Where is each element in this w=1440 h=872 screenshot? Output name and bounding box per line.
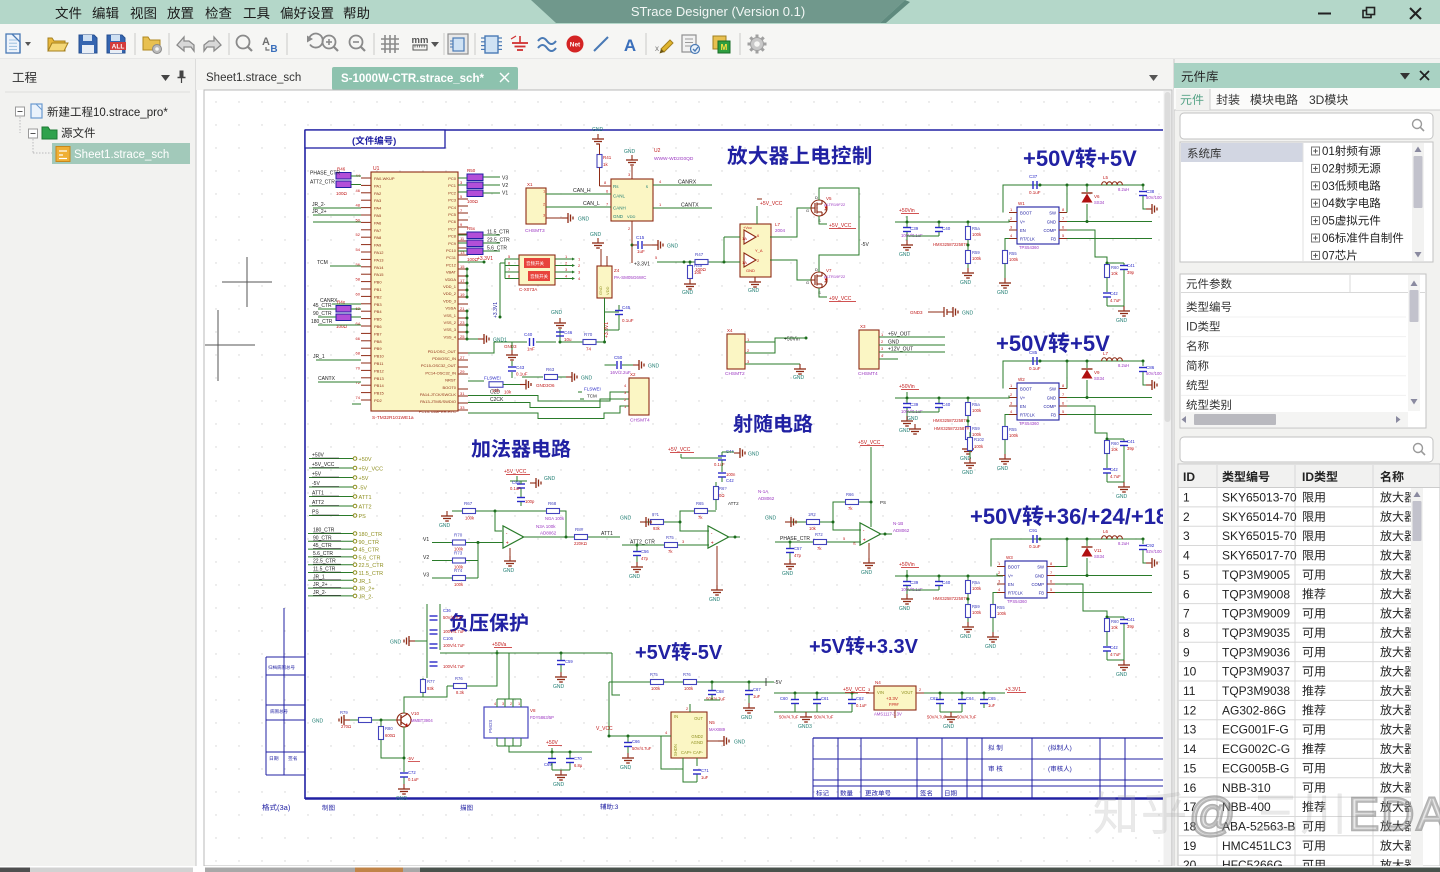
bottom strip bbox=[0, 866, 1440, 872]
wire buck top rail bk2 bbox=[1003, 360, 1145, 389]
label -5V out bbox=[766, 678, 782, 686]
svg-text:R41: R41 bbox=[603, 155, 612, 160]
svg-text:ALTR19F22: ALTR19F22 bbox=[824, 202, 846, 207]
op-amp N5 MAX889 inverter bbox=[663, 682, 726, 758]
svg-text:PC12: PC12 bbox=[446, 262, 457, 267]
svg-text:PB11: PB11 bbox=[374, 361, 384, 366]
power +5V_VCC inv bbox=[596, 726, 663, 738]
diode V6 SS34 bbox=[1082, 185, 1105, 222]
svg-text:GND: GND bbox=[629, 574, 641, 580]
op-amp N3A summing bbox=[503, 524, 557, 548]
resistor R65 bbox=[680, 501, 716, 531]
svg-text:C41: C41 bbox=[1127, 263, 1135, 268]
svg-text:V1: V1 bbox=[423, 537, 429, 543]
svg-text:100k: 100k bbox=[454, 582, 464, 587]
frame margin blocks bbox=[262, 608, 619, 812]
svg-text:GND: GND bbox=[312, 719, 324, 725]
svg-text:GND: GND bbox=[590, 232, 602, 238]
resistor R91 bbox=[640, 512, 682, 531]
svg-text:180_CTR: 180_CTR bbox=[313, 528, 335, 534]
svg-text:39p: 39p bbox=[1127, 446, 1135, 451]
canvas frame bbox=[204, 90, 1172, 866]
svg-text:PHASE_CTR: PHASE_CTR bbox=[310, 171, 340, 177]
wire comp bk3 bbox=[1055, 584, 1107, 617]
svg-text:+Vcc: +Vcc bbox=[743, 225, 752, 230]
wire V10 emitter bbox=[403, 727, 421, 772]
svg-text:GND: GND bbox=[592, 127, 604, 133]
svg-text:C40: C40 bbox=[524, 332, 533, 337]
svg-text:BOOT: BOOT bbox=[1020, 211, 1032, 216]
svg-text:VSS_1: VSS_1 bbox=[444, 313, 457, 318]
svg-text:L5: L5 bbox=[1103, 175, 1109, 180]
wire fB out bbox=[871, 518, 892, 536]
svg-text:66: 66 bbox=[356, 336, 361, 341]
svg-text:GND: GND bbox=[648, 364, 660, 370]
svg-text:A: A bbox=[624, 36, 636, 55]
tree guides bbox=[20, 117, 52, 153]
svg-text:V+: V+ bbox=[1008, 574, 1014, 579]
svg-text:S-1000W-CTR.strace_sch*: S-1000W-CTR.strace_sch* bbox=[341, 73, 484, 85]
svg-text:V10: V10 bbox=[411, 711, 420, 716]
svg-text:VBAT: VBAT bbox=[446, 270, 457, 275]
svg-text:100k: 100k bbox=[972, 408, 982, 413]
svg-text:+50Va: +50Va bbox=[492, 642, 506, 648]
svg-text:PA13-JTMS/SWDIO: PA13-JTMS/SWDIO bbox=[420, 399, 456, 404]
resistor Rclk bk3 bbox=[991, 593, 1007, 633]
svg-text:C2D: C2D bbox=[490, 390, 500, 396]
svg-text:100k: 100k bbox=[974, 444, 984, 449]
svg-text:VDD_2: VDD_2 bbox=[443, 291, 457, 296]
ground GND3O6 bbox=[520, 380, 555, 390]
svg-text:PA12: PA12 bbox=[374, 250, 384, 255]
svg-text:@: @ bbox=[1189, 788, 1238, 840]
svg-text:GND: GND bbox=[943, 724, 955, 730]
wire opto-left bus bbox=[499, 259, 506, 319]
svg-text:ATT2: ATT2 bbox=[312, 500, 324, 506]
svg-text:GND: GND bbox=[748, 288, 760, 294]
svg-text:1R2: 1R2 bbox=[808, 512, 816, 517]
svg-text:22.5_CTR: 22.5_CTR bbox=[487, 238, 510, 244]
svg-text:TQP3M9038: TQP3M9038 bbox=[1222, 684, 1290, 698]
svg-text:NGA 100k: NGA 100k bbox=[545, 516, 565, 521]
svg-text:SKY65014-70: SKY65014-70 bbox=[1222, 510, 1297, 524]
component table bbox=[1178, 464, 1440, 872]
svg-text:R59: R59 bbox=[972, 250, 980, 255]
right panel bbox=[1174, 59, 1440, 866]
svg-text:PC0: PC0 bbox=[448, 176, 457, 181]
resistor Rdiv2 bk1 bbox=[966, 250, 982, 268]
svg-text:45_CTR: 45_CTR bbox=[359, 548, 380, 554]
svg-text:JR_2-: JR_2- bbox=[312, 202, 326, 208]
svg-text:39p: 39p bbox=[1127, 624, 1135, 629]
svg-text:TQP3M9035: TQP3M9035 bbox=[1222, 626, 1290, 640]
svg-text:-5V: -5V bbox=[691, 642, 723, 664]
label PHASE_CTR bbox=[310, 171, 340, 177]
svg-text:50V/4.7uF: 50V/4.7uF bbox=[779, 715, 799, 720]
wire fb node bk3 bbox=[1106, 616, 1125, 619]
svg-text:5.6_CTR: 5.6_CTR bbox=[313, 551, 333, 557]
svg-text:100k: 100k bbox=[972, 256, 982, 261]
wire osc run bbox=[468, 341, 605, 354]
svg-text:100Ω: 100Ω bbox=[467, 199, 479, 204]
svg-text:0.1uF: 0.1uF bbox=[714, 462, 725, 467]
svg-text:+50V: +50V bbox=[996, 331, 1048, 356]
svg-text:HMX3258722587#: HMX3258722587# bbox=[933, 418, 969, 423]
svg-text:C85: C85 bbox=[1029, 350, 1038, 355]
svg-text:100V/4.7uF: 100V/4.7uF bbox=[443, 664, 465, 669]
svg-text:C39: C39 bbox=[910, 226, 919, 231]
svg-text:+36/+24/+18: +36/+24/+18 bbox=[1044, 504, 1168, 529]
ground C46 bbox=[551, 310, 566, 328]
wire pmos bottom bbox=[497, 746, 540, 752]
wire gnd net bk2 bbox=[1067, 396, 1152, 399]
canvas v-scrollbar bbox=[1164, 91, 1172, 865]
svg-text:R70: R70 bbox=[584, 332, 593, 337]
capacitor C56 bbox=[633, 545, 649, 562]
wire FB long bk2 bbox=[1067, 414, 1152, 416]
svg-text:F###: F### bbox=[889, 702, 899, 707]
capacitor Cin1 bk2 bbox=[901, 398, 923, 416]
svg-text:+5V_OUT: +5V_OUT bbox=[888, 332, 910, 338]
svg-text:PB4: PB4 bbox=[374, 309, 382, 314]
svg-text:): ) bbox=[1070, 766, 1072, 773]
svg-text:50V/100: 50V/100 bbox=[1146, 195, 1162, 200]
svg-text:GND: GND bbox=[899, 606, 911, 612]
svg-text:C56: C56 bbox=[641, 549, 649, 554]
svg-text:CHSMT3: CHSMT3 bbox=[525, 228, 545, 234]
svg-text:V11: V11 bbox=[1094, 548, 1102, 553]
wire fb node bk2 bbox=[1106, 438, 1125, 441]
svg-text:OUT: OUT bbox=[694, 716, 703, 721]
svg-text:U2: U2 bbox=[654, 148, 661, 154]
capacitor C85 bbox=[1029, 350, 1041, 371]
capacitor C70 bbox=[566, 752, 583, 770]
ground C72 bbox=[396, 784, 410, 802]
svg-text:PS: PS bbox=[359, 514, 367, 520]
resistor R60 bk1 bbox=[1105, 265, 1120, 293]
title 加法器电路 bbox=[471, 439, 570, 458]
svg-text:+50Vin: +50Vin bbox=[899, 208, 915, 214]
svg-text:9: 9 bbox=[1183, 645, 1190, 659]
menu bar bbox=[55, 7, 369, 20]
svg-text:PD1/OSC_OUT: PD1/OSC_OUT bbox=[428, 349, 457, 354]
svg-text:GND: GND bbox=[793, 375, 805, 381]
svg-text:5: 5 bbox=[1183, 568, 1190, 582]
power +50V pmos bbox=[546, 740, 562, 752]
resistor R75b bbox=[650, 672, 664, 691]
svg-text:V5: V5 bbox=[826, 196, 832, 201]
svg-text:W1: W1 bbox=[1018, 201, 1025, 206]
op-amp U7 gate driver bbox=[740, 222, 786, 277]
svg-text:GND: GND bbox=[613, 214, 624, 219]
power +5V_VCC fA bbox=[668, 447, 722, 458]
svg-text:46: 46 bbox=[356, 188, 361, 193]
svg-text:8: 8 bbox=[1183, 626, 1190, 640]
svg-text:R60: R60 bbox=[1111, 619, 1119, 624]
capacitor C46 bbox=[556, 329, 573, 342]
svg-text:AMS1117-3.3V: AMS1117-3.3V bbox=[874, 712, 902, 717]
svg-text:COMP: COMP bbox=[1043, 404, 1056, 409]
svg-text:68: 68 bbox=[356, 351, 361, 356]
centering cross 1 bbox=[222, 257, 272, 307]
svg-text:PC14-OSC32_IN: PC14-OSC32_IN bbox=[425, 370, 456, 375]
power +50Vin bk3 bbox=[899, 562, 919, 576]
svg-text:V6: V6 bbox=[1094, 194, 1100, 199]
svg-text:C92: C92 bbox=[1146, 543, 1155, 548]
svg-text:180_CTR: 180_CTR bbox=[311, 319, 333, 325]
capacitor C69 bbox=[544, 752, 556, 770]
resistor Rclk bk1 bbox=[1003, 239, 1019, 279]
resistor pack R4x 100R (ctr) bbox=[311, 300, 361, 330]
right panel header bbox=[1174, 63, 1440, 88]
capacitor C91 bbox=[1029, 528, 1041, 549]
label net bk1 bbox=[0, 0, 1, 1]
svg-text:V9: V9 bbox=[1094, 370, 1100, 375]
sheet frame bbox=[305, 130, 1163, 799]
capacitor C60 bbox=[779, 693, 799, 720]
power +50Va bbox=[492, 642, 512, 655]
op-amp N1B follower bbox=[860, 500, 886, 545]
svg-text:1k: 1k bbox=[603, 162, 609, 167]
svg-text:C49: C49 bbox=[512, 480, 520, 485]
capacitor C92 out bbox=[1139, 539, 1162, 557]
ground GND3 flag bbox=[504, 342, 518, 360]
title +50V转+36/+24/+1 bbox=[970, 504, 1168, 529]
svg-text:V2: V2 bbox=[423, 555, 429, 561]
svg-text:GND3: GND3 bbox=[910, 310, 923, 315]
svg-text:GND: GND bbox=[899, 428, 911, 434]
svg-text:GND: GND bbox=[439, 523, 451, 529]
svg-text:GND: GND bbox=[962, 470, 974, 476]
svg-text:C69: C69 bbox=[544, 762, 552, 767]
wire JR stubs bbox=[312, 202, 361, 222]
svg-text:50V/4.7uF: 50V/4.7uF bbox=[443, 615, 463, 620]
svg-text:D: D bbox=[815, 195, 818, 200]
wire buck top rail bk3 bbox=[991, 538, 1145, 567]
svg-text:C70: C70 bbox=[574, 756, 582, 761]
transistor V10 npn bbox=[396, 697, 433, 727]
capacitor C42 bk2 bbox=[1103, 467, 1124, 482]
svg-text:R65: R65 bbox=[696, 501, 704, 506]
ground C44 bbox=[722, 448, 760, 458]
svg-text:100k: 100k bbox=[684, 686, 694, 691]
svg-text:M: M bbox=[721, 43, 728, 52]
svg-text:V+: V+ bbox=[1020, 396, 1026, 401]
svg-text:VDD: VDD bbox=[627, 214, 636, 219]
svg-text:PA6: PA6 bbox=[374, 220, 382, 225]
svg-text:U1: U1 bbox=[373, 166, 380, 172]
svg-text:C63: C63 bbox=[930, 696, 938, 701]
op-amp W1 TPS54360 bbox=[1009, 201, 1067, 250]
resistor R66 bbox=[833, 492, 873, 530]
ground outcap bk1 bbox=[1143, 203, 1157, 214]
transistor V5 mosfet bbox=[806, 195, 846, 223]
svg-text:2004: 2004 bbox=[775, 228, 786, 233]
svg-text:SKY65013-70: SKY65013-70 bbox=[1222, 491, 1297, 505]
svg-text:11.5_CTR: 11.5_CTR bbox=[313, 567, 336, 573]
svg-text:22.5_CTR: 22.5_CTR bbox=[313, 559, 336, 565]
svg-text:C36: C36 bbox=[443, 608, 451, 613]
svg-text:GND: GND bbox=[960, 634, 972, 640]
svg-text:100k: 100k bbox=[1009, 257, 1019, 262]
title 放大器上电控制 bbox=[727, 145, 871, 164]
wire V7 source bbox=[819, 288, 856, 302]
svg-text:C15: C15 bbox=[636, 235, 645, 240]
wire fA out bbox=[727, 521, 745, 539]
svg-text:PC4: PC4 bbox=[448, 205, 457, 210]
ground X1 pin3 bbox=[562, 213, 590, 223]
svg-text:TQP3M9009: TQP3M9009 bbox=[1222, 607, 1290, 621]
resistor R103 bbox=[968, 432, 985, 458]
ground driver bbox=[748, 277, 761, 294]
svg-text:R75: R75 bbox=[666, 535, 674, 540]
ground R49 bbox=[682, 279, 696, 296]
svg-text:58: 58 bbox=[356, 277, 361, 282]
svg-text:VDD_3: VDD_3 bbox=[443, 298, 457, 303]
svg-text:W3: W3 bbox=[1006, 555, 1013, 560]
title banner bbox=[531, 0, 910, 23]
svg-text:0.1uF: 0.1uF bbox=[856, 703, 867, 708]
svg-text:+12V_OUT: +12V_OUT bbox=[888, 347, 913, 353]
op-amp W3 TPS54360 bbox=[997, 555, 1055, 604]
svg-text:+5V_VCC: +5V_VCC bbox=[760, 201, 783, 207]
ground outcap bk2 bbox=[1143, 379, 1157, 390]
svg-text:PC10: PC10 bbox=[446, 248, 457, 253]
svg-text:C59: C59 bbox=[565, 659, 573, 664]
ground C59 bbox=[553, 672, 567, 690]
wire buck2 link bbox=[903, 397, 1003, 399]
svg-text:10k: 10k bbox=[694, 270, 702, 275]
svg-text:C106: C106 bbox=[443, 636, 454, 641]
svg-text:(3a): (3a) bbox=[277, 803, 291, 812]
svg-text:74: 74 bbox=[586, 347, 592, 352]
svg-text:93k: 93k bbox=[427, 686, 435, 691]
svg-text:GND: GND bbox=[782, 571, 794, 577]
svg-text:50V/4.7uF: 50V/4.7uF bbox=[927, 715, 947, 720]
ground Rclk bk3 bbox=[985, 632, 999, 650]
label HMX bk1 bbox=[933, 242, 969, 247]
svg-text:V7: V7 bbox=[826, 268, 832, 273]
svg-text:+5V: +5V bbox=[312, 472, 322, 478]
svg-text:90_CTR: 90_CTR bbox=[313, 535, 332, 541]
ground C66 bbox=[620, 753, 634, 771]
svg-text:BOOT: BOOT bbox=[1020, 387, 1032, 392]
svg-text:PA7: PA7 bbox=[374, 228, 382, 233]
svg-text:ALL: ALL bbox=[112, 44, 125, 51]
wire VDD bus bbox=[466, 268, 469, 299]
svg-text:SS34: SS34 bbox=[1094, 554, 1105, 559]
svg-text:TQP3M9037: TQP3M9037 bbox=[1222, 665, 1290, 679]
ground fA bbox=[709, 546, 723, 603]
svg-text:GND: GND bbox=[861, 570, 873, 576]
svg-text:47p: 47p bbox=[794, 553, 802, 558]
svg-text:R66: R66 bbox=[846, 492, 854, 497]
svg-text:ECG001F-G: ECG001F-G bbox=[1222, 723, 1289, 737]
svg-text:C43: C43 bbox=[516, 365, 525, 370]
wire vin bk1 bbox=[1003, 220, 1009, 223]
wire CANTX-left bbox=[318, 376, 361, 382]
svg-text:PC7: PC7 bbox=[448, 226, 457, 231]
wire ldo out bbox=[924, 692, 1005, 713]
svg-text:C91: C91 bbox=[1029, 528, 1038, 533]
svg-text:10u: 10u bbox=[564, 337, 572, 342]
svg-text:+50V: +50V bbox=[1023, 146, 1075, 171]
svg-text:100V/4.7uF: 100V/4.7uF bbox=[443, 629, 465, 634]
svg-text:PHASE_CTR: PHASE_CTR bbox=[780, 536, 810, 542]
svg-text:L6: L6 bbox=[1103, 529, 1109, 534]
svg-text:+: + bbox=[863, 538, 866, 544]
capacitor C40 bbox=[524, 332, 535, 352]
svg-text:01: 01 bbox=[1322, 146, 1335, 158]
svg-text:ECG002C-G: ECG002C-G bbox=[1222, 742, 1290, 756]
wire sum out bbox=[522, 536, 574, 539]
svg-text:90_CTR: 90_CTR bbox=[359, 540, 380, 546]
svg-text:C60: C60 bbox=[780, 696, 788, 701]
resistor pack R50 bbox=[458, 168, 508, 204]
svg-text:G: G bbox=[806, 208, 809, 213]
op-amp N4 AMS1117 bbox=[866, 680, 924, 718]
wire vin bk3 bbox=[997, 574, 1003, 577]
svg-text:+50V: +50V bbox=[312, 453, 324, 459]
svg-text:HMX3258722587#: HMX3258722587# bbox=[934, 426, 970, 431]
svg-text:50V/100: 50V/100 bbox=[1146, 371, 1162, 376]
ground Rclk bk2 bbox=[997, 454, 1011, 472]
svg-text:COMP: COMP bbox=[1043, 228, 1056, 233]
svg-text:100k: 100k bbox=[972, 610, 982, 615]
wire comp bk1 bbox=[1067, 230, 1107, 263]
wire inv input bbox=[495, 511, 502, 531]
svg-text:PA3: PA3 bbox=[374, 198, 382, 203]
capacitor C71 bbox=[683, 758, 709, 782]
svg-text:+9V_VCC: +9V_VCC bbox=[829, 296, 852, 302]
svg-text:GND: GND bbox=[1116, 494, 1128, 500]
svg-text:X3: X3 bbox=[860, 324, 866, 329]
resistor Rdiv1 bk2 bbox=[966, 398, 982, 426]
svg-text:TQP3M9036: TQP3M9036 bbox=[1222, 645, 1290, 659]
svg-text:180_CTR: 180_CTR bbox=[359, 532, 383, 538]
resistor Rdiv1 bk1 bbox=[966, 222, 982, 250]
power +5V_VCC fB bbox=[858, 440, 884, 527]
svg-text:270Ω: 270Ω bbox=[341, 724, 351, 729]
resistor pack R46 100R bbox=[336, 167, 361, 197]
svg-text:AD8062: AD8062 bbox=[540, 531, 557, 536]
svg-text:JR_2+: JR_2+ bbox=[312, 209, 327, 215]
svg-text:B: B bbox=[270, 44, 277, 55]
svg-text:N-1A: N-1A bbox=[758, 489, 768, 494]
svg-text:PA5: PA5 bbox=[374, 213, 382, 218]
svg-text:PA15: PA15 bbox=[374, 272, 384, 277]
project tree bbox=[16, 104, 191, 164]
svg-text:06: 06 bbox=[1322, 233, 1335, 245]
label HMX bk2 bbox=[933, 418, 969, 423]
svg-text:FB: FB bbox=[1051, 237, 1057, 242]
svg-text:31: 31 bbox=[460, 391, 465, 396]
svg-text:+5V: +5V bbox=[1097, 146, 1137, 171]
capacitor Cin2 bk2 bbox=[907, 398, 951, 412]
svg-text:+50V: +50V bbox=[359, 457, 372, 463]
svg-text:VDD_1: VDD_1 bbox=[443, 284, 457, 289]
svg-text:GND: GND bbox=[741, 715, 753, 721]
svg-text:04: 04 bbox=[1322, 198, 1335, 210]
inactive tab bbox=[206, 72, 301, 84]
svg-text:02: 02 bbox=[1322, 163, 1335, 175]
label +3.3V1 rot2 bbox=[604, 322, 610, 338]
svg-text:X1: X1 bbox=[527, 182, 533, 187]
svg-text:GND: GND bbox=[578, 217, 590, 223]
svg-text:R49: R49 bbox=[694, 263, 703, 268]
resistor R77 bbox=[421, 678, 461, 700]
svg-text:CHSMT4: CHSMT4 bbox=[858, 371, 878, 377]
